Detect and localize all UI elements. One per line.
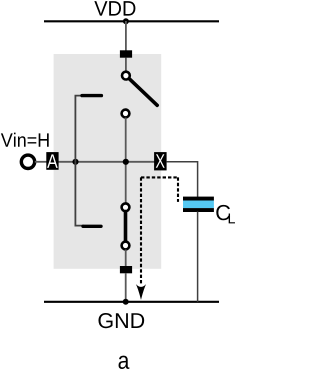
discharge arrowhead (136, 284, 146, 300)
wire X box to capacitor (167, 162, 198, 197)
node output junction (123, 159, 129, 165)
wire capacitor to GND (197, 212, 199, 302)
label CL letter C (216, 205, 230, 220)
capacitor CL top plate (183, 197, 214, 201)
wire dashed left vertical (140, 177, 142, 283)
node GND junction (123, 299, 129, 305)
marker A box (46, 152, 58, 170)
marker X box (154, 152, 167, 170)
marker A letter (47, 154, 58, 167)
VDD rail (44, 20, 219, 22)
marker X letter (156, 154, 165, 167)
terminal contact square (nMOS source) (120, 266, 132, 273)
label CL subscript L (229, 214, 235, 224)
wire A box to X box (58, 161, 155, 163)
pMOS open switch bottom contact (122, 110, 130, 118)
nMOS closed switch bottom contact (122, 242, 130, 250)
wire terminal to GND (125, 273, 127, 302)
wire switch to output node (125, 118, 127, 204)
wire input to A box (35, 161, 47, 163)
nMOS closed switch lever (124, 212, 128, 241)
terminal contact square (pMOS source) (120, 50, 132, 57)
capacitor CL bottom plate (183, 208, 214, 212)
wire dashed right vertical (177, 177, 179, 202)
label VDD (94, 1, 135, 15)
input terminal circle (21, 155, 34, 168)
label Vin=H (1, 133, 49, 147)
wire VDD to source terminal (125, 21, 127, 51)
discharge current dashed path horizontal (141, 176, 178, 178)
capacitor CL dielectric (183, 200, 214, 208)
inverter body shaded region (54, 54, 162, 269)
GND rail (44, 301, 219, 303)
pMOS open switch top contact (122, 72, 130, 80)
pMOS gate electrode (82, 94, 101, 97)
gate bus bracket (75, 96, 84, 226)
nMOS closed switch top contact (122, 203, 130, 211)
nMOS gate electrode (83, 225, 101, 228)
node VDD junction (123, 18, 129, 24)
wire terminal to switch contact (125, 58, 127, 72)
label GND (98, 313, 144, 328)
wire switch to drain terminal (125, 250, 127, 267)
node gate bus junction (72, 159, 78, 165)
label a (subfigure) (119, 356, 130, 369)
pMOS open switch lever (130, 79, 158, 105)
